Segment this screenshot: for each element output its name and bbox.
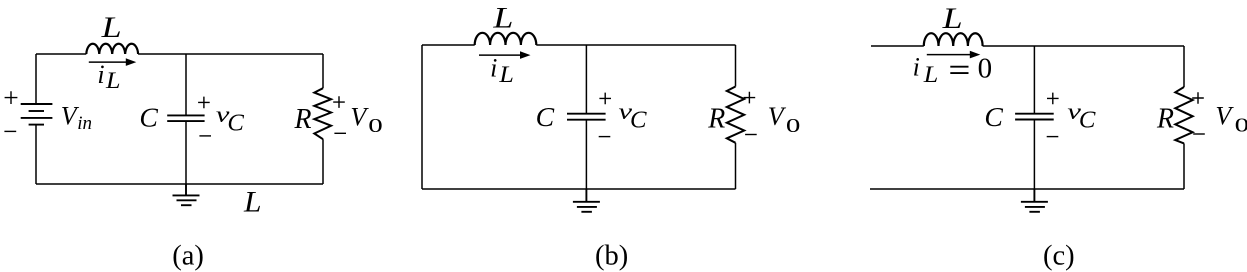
ground (c) (1021, 189, 1048, 212)
wire (b) top-right segment (536, 44, 735, 46)
svg-text:C: C (227, 110, 245, 136)
label vC (b) (619, 99, 648, 133)
svg-text:V: V (1215, 102, 1234, 131)
resistor R (a) (314, 88, 331, 139)
node (b) top junction to capacitor branch (585, 45, 587, 114)
svg-text:L: L (492, 2, 513, 35)
svg-text:L: L (100, 11, 121, 44)
capacitor C (a) (167, 115, 204, 121)
label V0 (c) (1215, 102, 1247, 137)
svg-text:L: L (941, 2, 962, 35)
svg-text:(b): (b) (595, 241, 628, 272)
svg-text:0: 0 (978, 53, 993, 84)
svg-text:L: L (105, 68, 121, 93)
ground (a) (173, 184, 200, 205)
capacitor C (c) (1015, 114, 1054, 120)
label + of vC (b) (599, 93, 611, 105)
svg-text:C: C (1079, 108, 1097, 134)
svg-text:R: R (294, 103, 312, 135)
current arrow i_L (c) (927, 51, 981, 59)
inductor L2 (b) (475, 33, 537, 45)
label + of vC (c) (1047, 93, 1059, 105)
svg-text:C: C (139, 103, 159, 133)
label - of V0 (a) (334, 132, 346, 134)
wire (a) top-left segment (36, 53, 86, 55)
label i_L = 0 (c) (913, 53, 939, 88)
equals sign of i_L = 0 (c) (950, 67, 968, 73)
label V0 (a) (350, 103, 382, 137)
capacitor C (b) (567, 114, 606, 120)
svg-text:i: i (490, 54, 497, 83)
wire (b) right vertical upper (735, 45, 737, 87)
wire (c) right vertical lower (1183, 143, 1185, 189)
ground (b) (573, 189, 600, 212)
wire (a) right vertical lower (322, 139, 324, 184)
svg-text:(a): (a) (172, 241, 204, 272)
label - of vC (c) (1047, 136, 1059, 138)
label - of V0 (c) (1193, 133, 1205, 135)
label + of V0 (c) (1192, 92, 1204, 104)
svg-text:i: i (913, 53, 920, 82)
svg-text:R: R (707, 102, 725, 134)
wire (b) bottom segment (422, 188, 736, 190)
battery Vin (a) (21, 104, 53, 125)
label + of vC (a) (198, 97, 210, 109)
wire (a) top-right segment (138, 53, 323, 55)
svg-text:0: 0 (786, 115, 801, 137)
wire (a) right vertical upper (322, 54, 324, 88)
label - of battery Vin (a) (4, 130, 16, 132)
inductor L3 (c) (924, 33, 983, 46)
svg-text:L: L (498, 62, 514, 87)
wire (c) top-left open stub (871, 45, 924, 47)
svg-text:C: C (630, 108, 648, 134)
current arrow i_L (b) (479, 51, 531, 59)
svg-text:L: L (243, 186, 262, 219)
wire (a) left vertical upper (35, 54, 37, 104)
label vC (c) (1067, 99, 1096, 133)
resistor R (c) (1175, 87, 1192, 143)
label i_L (b) (490, 54, 514, 88)
label V0 (b) (768, 102, 801, 137)
svg-text:V: V (768, 102, 787, 131)
svg-text:i: i (97, 60, 104, 89)
label Vin (a) (61, 101, 92, 134)
wire (b) capacitor to bottom (585, 120, 587, 189)
label + of V0 (a) (333, 96, 345, 108)
current arrow i_L (a) (89, 58, 137, 66)
wire (c) top-right segment (983, 45, 1184, 47)
inductor L1 (a) (86, 44, 138, 54)
svg-text:V: V (350, 103, 369, 132)
wire (b) left vertical (421, 45, 423, 189)
label + of battery Vin (a) (5, 91, 18, 104)
label vC (a) (216, 102, 245, 136)
wire (b) top-left segment (422, 44, 475, 46)
wire (c) right vertical upper (1183, 46, 1185, 87)
wire (c) bottom open stub (870, 188, 1184, 190)
wire (a) left vertical lower (35, 125, 37, 184)
svg-text:0: 0 (1235, 115, 1247, 137)
wire (a) capacitor to bottom (185, 121, 187, 184)
svg-text:R: R (1156, 102, 1174, 134)
svg-text:in: in (77, 113, 92, 134)
label + of V0 (b) (744, 92, 756, 104)
label - of V0 (b) (745, 134, 757, 136)
node (a) top junction to capacitor branch (185, 54, 187, 115)
wire (c) capacitor to bottom (1033, 120, 1035, 190)
wire (b) right vertical lower (735, 143, 737, 189)
resistor R (b) (727, 87, 744, 143)
node (c) top junction to capacitor branch (1033, 46, 1035, 114)
svg-text:L: L (923, 62, 939, 87)
svg-text:0: 0 (368, 115, 383, 137)
svg-text:(c): (c) (1043, 241, 1075, 272)
label i_L (a) (97, 60, 120, 93)
label - of vC (b) (599, 136, 611, 138)
svg-text:C: C (984, 102, 1004, 132)
wire (a) bottom segment (36, 183, 323, 185)
label - of vC (a) (199, 135, 211, 137)
svg-text:C: C (536, 102, 556, 132)
